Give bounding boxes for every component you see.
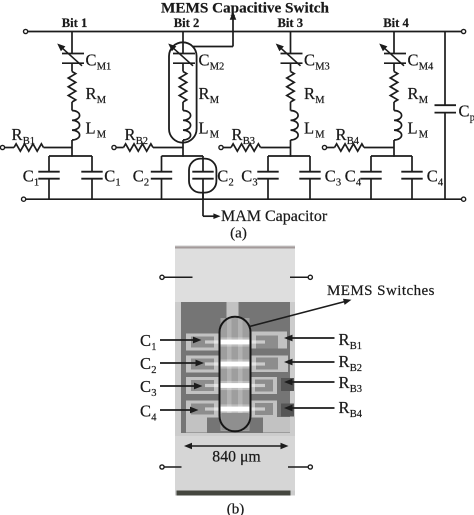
svg-text:2: 2 <box>144 178 149 189</box>
wire inductor to junction <box>393 140 395 157</box>
svg-text:R: R <box>12 125 23 144</box>
wire top rail <box>28 31 462 33</box>
svg-text:Bit 3: Bit 3 <box>278 16 304 30</box>
arrow MEMS Switches <box>250 299 352 327</box>
arrow R_B1 <box>284 335 335 342</box>
svg-text:L: L <box>199 119 209 138</box>
svg-text:R: R <box>199 84 210 103</box>
svg-text:B4: B4 <box>347 136 360 147</box>
capacitor C2 (left) <box>151 156 172 199</box>
svg-text:3: 3 <box>252 178 257 189</box>
svg-text:B2: B2 <box>136 136 148 147</box>
resistor R_B4 with input terminal <box>322 144 394 151</box>
highlight ellipse around bit-2 MEMS switch <box>169 42 197 142</box>
pointer to MEMS Capacitive Switch label <box>192 12 236 47</box>
wire <box>290 63 292 71</box>
node bit 4 junction bar <box>371 155 412 157</box>
pointer to MAM Capacitor label <box>203 193 221 220</box>
wire <box>71 63 73 71</box>
micrograph photo background <box>175 246 295 496</box>
inductor L_M bit 4 <box>394 111 402 140</box>
resistor R_M bit 1 <box>68 72 75 102</box>
inductor L_M bit 3 <box>291 111 299 140</box>
MEMS capacitive switch C_M4 (variable capacitor with arrow) <box>379 44 406 66</box>
svg-text:4: 4 <box>438 178 444 189</box>
MEMS capacitive switch C_M3 (variable capacitor with arrow) <box>276 44 303 66</box>
svg-text:MEMS Capacitive Switch: MEMS Capacitive Switch <box>161 0 329 17</box>
capacitor C1 (left) <box>38 156 59 199</box>
svg-text:C: C <box>140 354 151 373</box>
wire <box>290 102 292 111</box>
svg-text:C: C <box>304 50 315 69</box>
die shading inside stadium bottom <box>222 413 249 430</box>
svg-text:C: C <box>140 377 151 396</box>
svg-text:C: C <box>140 402 151 421</box>
die frame interiors <box>191 336 278 416</box>
svg-text:C: C <box>459 102 470 121</box>
svg-text:3: 3 <box>151 388 156 399</box>
dimension arrow 840 um <box>184 443 289 449</box>
wire inductor to junction <box>290 140 292 157</box>
wire inductor to junction <box>71 140 73 157</box>
svg-text:R: R <box>339 330 350 349</box>
svg-text:C: C <box>427 166 438 185</box>
svg-text:B1: B1 <box>23 136 35 147</box>
svg-text:C: C <box>408 50 419 69</box>
arrow R_B4 <box>284 405 335 412</box>
MEMS switch bright membranes (4 bars) <box>205 337 265 413</box>
port top-left <box>160 275 193 279</box>
capacitor C1 (right) <box>81 156 102 199</box>
highlight ellipse around MAM capacitor <box>189 159 216 193</box>
svg-text:R: R <box>336 125 347 144</box>
svg-text:L: L <box>304 119 314 138</box>
terminal bottom-right <box>462 197 466 201</box>
inductor L_M bit 2 <box>183 111 191 140</box>
terminal bottom-left <box>22 197 26 201</box>
node bit 1 junction bar <box>49 155 92 157</box>
svg-text:M: M <box>210 130 220 141</box>
wire bit 4 drop from rail <box>393 32 395 54</box>
wire <box>393 63 395 71</box>
arrow C3 <box>160 383 203 390</box>
svg-text:B2: B2 <box>350 363 362 374</box>
die dark region <box>181 302 290 433</box>
svg-text:M: M <box>210 95 220 106</box>
svg-text:C: C <box>140 331 151 350</box>
arrow C4 <box>160 407 199 414</box>
svg-text:M2: M2 <box>210 62 225 73</box>
svg-text:B4: B4 <box>350 409 363 420</box>
svg-text:840 μm: 840 μm <box>212 449 261 466</box>
svg-text:M: M <box>97 95 107 106</box>
svg-text:R: R <box>304 84 315 103</box>
svg-text:M: M <box>419 130 429 141</box>
wire bit 3 drop from rail <box>290 32 292 54</box>
svg-text:M: M <box>419 95 429 106</box>
resistor R_M bit 4 <box>390 72 397 102</box>
svg-text:1: 1 <box>151 342 156 353</box>
svg-text:R: R <box>232 125 243 144</box>
svg-text:B1: B1 <box>350 341 362 352</box>
wire <box>393 102 395 111</box>
wire right rail lower <box>444 113 446 200</box>
die etched light pattern <box>186 302 290 433</box>
svg-text:C: C <box>133 166 144 185</box>
resistor R_M bit 2 <box>179 72 186 102</box>
svg-text:M3: M3 <box>315 62 330 73</box>
svg-text:4: 4 <box>356 178 362 189</box>
resistor R_B2 with input terminal <box>112 144 183 151</box>
inductor L_M bit 1 <box>72 111 80 140</box>
capacitor C4 (right) <box>401 156 422 199</box>
svg-text:M: M <box>97 130 107 141</box>
svg-text:MAM Capacitor: MAM Capacitor <box>221 208 328 225</box>
port bottom-right <box>288 465 312 469</box>
capacitor C3 (right) <box>299 156 320 199</box>
resistor R_B3 with input terminal <box>219 144 291 151</box>
svg-text:1: 1 <box>115 178 120 189</box>
svg-text:4: 4 <box>151 413 157 424</box>
svg-text:C: C <box>199 50 210 69</box>
svg-text:C: C <box>23 166 34 185</box>
svg-text:M: M <box>315 130 325 141</box>
svg-text:C: C <box>217 166 228 185</box>
svg-text:R: R <box>86 84 97 103</box>
wire bit 1 drop from rail <box>71 32 73 54</box>
svg-text:R: R <box>339 398 350 417</box>
MEMS capacitive switch C_M1 (variable capacitor with arrow) <box>57 44 84 66</box>
die dark tabs right <box>281 378 294 391</box>
svg-text:Bit 4: Bit 4 <box>383 16 409 30</box>
svg-text:L: L <box>408 119 418 138</box>
svg-text:MEMS Switches: MEMS Switches <box>327 283 435 299</box>
capacitor C4 (left) <box>360 156 381 199</box>
svg-text:C: C <box>241 166 252 185</box>
wire bottom rail <box>26 198 462 200</box>
wire bit 2 drop from rail <box>182 32 184 54</box>
svg-text:M: M <box>315 95 325 106</box>
wire inductor to junction <box>182 140 184 157</box>
resistor R_B1 with input terminal <box>0 144 72 151</box>
svg-text:R: R <box>125 125 136 144</box>
stadium outline around MEMS switches on die <box>220 317 251 432</box>
wire <box>182 63 184 71</box>
svg-text:R: R <box>339 373 350 392</box>
svg-text:M4: M4 <box>419 62 434 73</box>
svg-text:1: 1 <box>34 178 39 189</box>
svg-text:(b): (b) <box>227 502 245 515</box>
wire <box>182 102 184 111</box>
photo bottom dark band <box>177 491 291 496</box>
svg-text:2: 2 <box>229 178 234 189</box>
wire right rail upper <box>444 32 446 106</box>
terminal top-left <box>24 29 28 33</box>
svg-text:(a): (a) <box>230 226 247 242</box>
arrow C2 <box>160 360 204 367</box>
svg-text:Bit 1: Bit 1 <box>62 16 88 30</box>
arrow R_B2 <box>284 359 335 366</box>
svg-text:Bit 2: Bit 2 <box>174 16 200 30</box>
svg-text:C: C <box>104 166 115 185</box>
svg-text:3: 3 <box>336 178 341 189</box>
svg-text:B3: B3 <box>350 384 362 395</box>
svg-text:C: C <box>325 166 336 185</box>
svg-text:L: L <box>86 119 96 138</box>
svg-text:M1: M1 <box>97 62 112 73</box>
svg-text:C: C <box>86 50 97 69</box>
arrow C1 <box>160 337 202 344</box>
svg-text:R: R <box>339 352 350 371</box>
wire <box>71 102 73 111</box>
node bit 3 junction bar <box>268 155 310 157</box>
port bottom-left <box>160 465 182 469</box>
die center column (switch membrane area) <box>221 318 250 431</box>
terminal top-right <box>462 29 466 33</box>
svg-text:B3: B3 <box>243 136 255 147</box>
svg-text:R: R <box>408 84 419 103</box>
capacitor C3 (left) <box>257 156 278 199</box>
MEMS capacitive switch C_M2 (variable capacitor with arrow) <box>168 44 195 66</box>
port top-right <box>290 275 312 279</box>
capacitor Cp <box>435 105 457 112</box>
arrow R_B3 <box>284 379 335 386</box>
svg-text:p: p <box>470 113 474 124</box>
capacitor C2 (MAM capacitor, right) <box>192 156 213 199</box>
svg-text:2: 2 <box>151 365 156 376</box>
node bit 2 junction bar <box>162 155 204 157</box>
resistor R_M bit 3 <box>287 72 294 102</box>
svg-text:C: C <box>345 166 356 185</box>
